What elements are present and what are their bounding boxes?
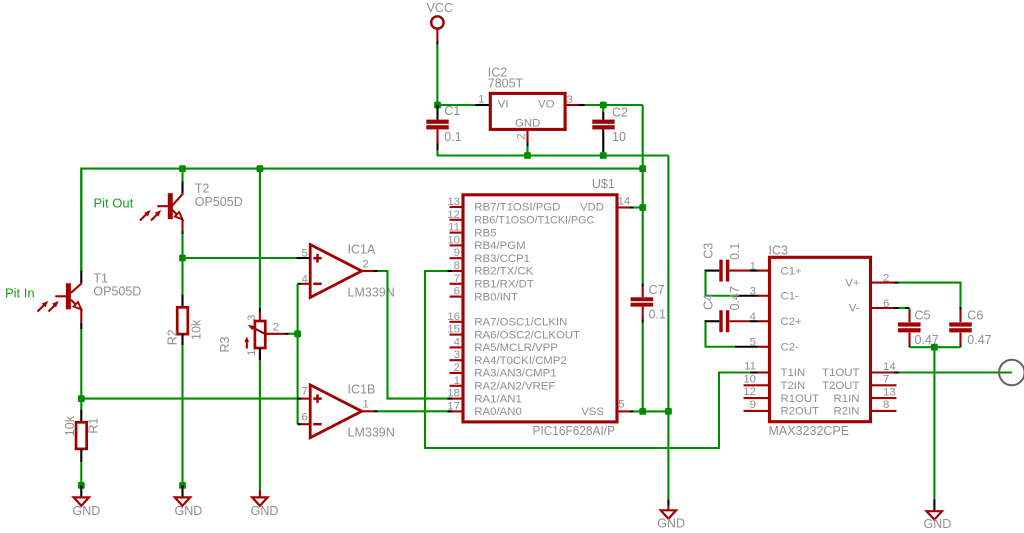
svg-text:10: 10: [447, 234, 460, 246]
U$1 pin 14 VDD stub: [617, 206, 634, 208]
label Pit In: [5, 285, 35, 300]
value LM339N of IC1A: [348, 285, 395, 299]
wire VSS pin to node: [634, 410, 643, 412]
svg-text:IC1B: IC1B: [348, 383, 376, 397]
wire IC1B output to RA0: [378, 410, 448, 412]
svg-text:0.1: 0.1: [444, 130, 461, 144]
pin number 4 of IC3: [750, 311, 756, 323]
wire C7 bottom to VSS node: [642, 323, 644, 412]
transistor T2 collector pin: [172, 181, 183, 205]
node junction R3 column on 5V rail: [257, 165, 264, 172]
node junction VDD pin 14: [639, 204, 646, 211]
svg-text:6: 6: [883, 298, 889, 310]
pin name RA1/AN1: [474, 393, 521, 405]
pin name RA7/OSC1/CLKIN: [474, 317, 567, 329]
resistor R1 bottom lead: [80, 449, 82, 462]
trimmer R3 box: [255, 321, 265, 348]
node junction T2/R2/IC1A: [179, 255, 186, 262]
svg-text:GND: GND: [924, 517, 952, 531]
svg-text:LM339N: LM339N: [348, 425, 395, 439]
pin name T2IN: [781, 380, 806, 392]
svg-text:RA0/AN0: RA0/AN0: [474, 406, 521, 418]
wire IC1A minus to R3 node: [297, 284, 299, 334]
svg-text:18: 18: [447, 388, 460, 400]
svg-text:T2IN: T2IN: [781, 380, 806, 392]
pin number 8 of IC3: [883, 399, 889, 411]
pin number 2 of IC2 rotated: [515, 133, 527, 139]
pin name RB5: [474, 227, 496, 239]
pin name C1+: [781, 265, 803, 277]
pin number 11 of U$1: [448, 222, 460, 234]
ground pin stub GND1: [80, 485, 82, 497]
wire T1 collector from 5V rail: [80, 169, 82, 271]
wire C3 left to pin 3: [706, 271, 758, 296]
svg-text:R1IN: R1IN: [834, 393, 860, 405]
svg-text:11: 11: [744, 361, 756, 373]
ground symbol GND3: [252, 497, 267, 505]
svg-text:V-: V-: [849, 303, 860, 315]
connector pad X1 circle: [999, 360, 1024, 386]
svg-text:10: 10: [743, 373, 756, 385]
svg-text:RA7/OSC1/CLKIN: RA7/OSC1/CLKIN: [474, 317, 567, 329]
wire C5-C6 GND rail: [910, 346, 961, 348]
transistor T2 base stub: [157, 205, 168, 207]
svg-text:8: 8: [454, 260, 460, 272]
IC3 pin 11 T1IN stub: [750, 371, 770, 373]
node junction 5V rail right end: [639, 165, 646, 172]
transistor T1 emitter pin: [80, 310, 82, 329]
svg-text:GND: GND: [73, 504, 101, 518]
pin number 18 of U$1: [447, 388, 460, 400]
wire VO to C2 node: [585, 104, 604, 106]
capacitor C5 bottom lead: [908, 333, 910, 348]
svg-text:R2IN: R2IN: [834, 406, 860, 418]
capacitor C4 right lead: [729, 320, 750, 322]
svg-text:4: 4: [750, 311, 756, 323]
label C1: [444, 104, 460, 118]
svg-text:17: 17: [447, 400, 460, 412]
pin number 5 of IC3: [750, 337, 756, 349]
pin name RB0/INT: [474, 291, 518, 303]
pin number 10 of IC3: [743, 373, 756, 385]
node junction T1/R1/rail: [78, 395, 85, 402]
svg-text:C6: C6: [967, 308, 983, 322]
wire R3 bottom to GND: [259, 360, 261, 497]
pin name VO: [538, 99, 555, 111]
svg-text:RA4/T0CKI/CMP2: RA4/T0CKI/CMP2: [474, 355, 566, 367]
light arrow 2 into T1: [49, 301, 59, 312]
U$1 pin 4 RA5/MCLR/VPP stub: [450, 346, 464, 348]
svg-text:C1+: C1+: [781, 265, 803, 277]
pin name R2IN: [834, 406, 860, 418]
label GND 1: [73, 504, 101, 518]
capacitor C7 plates: [631, 297, 654, 306]
trimmer R3 bottom lead: [259, 348, 261, 360]
wire 5V rail from VO column down: [642, 105, 644, 169]
label R3 rotated: [218, 336, 232, 352]
label T1: [93, 271, 108, 285]
label C6: [967, 308, 983, 322]
svg-text:T2: T2: [195, 181, 210, 195]
resistor R1 top lead: [80, 399, 82, 423]
pin name RB2/TX/CK: [474, 266, 533, 278]
value OP505D of T1: [93, 285, 141, 299]
svg-text:RB2/TX/CK: RB2/TX/CK: [474, 266, 533, 278]
svg-text:1: 1: [750, 260, 756, 272]
IC3 pin 8 R2IN stub: [871, 410, 897, 412]
U$1 pin 18 RA1/AN1 stub: [447, 398, 463, 400]
wire 5V rail y=168.6: [81, 169, 642, 271]
node VO junction at C2 top: [600, 102, 607, 109]
svg-text:VO: VO: [538, 99, 555, 111]
capacitor C6 plates: [949, 322, 972, 332]
pin name R1IN: [834, 393, 860, 405]
svg-text:12: 12: [743, 386, 756, 398]
label T2: [195, 181, 210, 195]
wire GND drop right: [933, 347, 935, 511]
svg-text:R1OUT: R1OUT: [781, 393, 820, 405]
U$1 pin 17 RA0/AN0 stub: [447, 410, 463, 412]
pin number 13 of IC3: [883, 386, 896, 398]
U$1 pin 12 RB6/T1OSO/T1CKI/PGC stub: [450, 219, 464, 221]
label IC1B: [348, 383, 376, 397]
IC3 pin 10 T2IN stub: [744, 384, 770, 386]
svg-text:12: 12: [447, 209, 460, 221]
svg-text:RA6/OSC2/CLKOUT: RA6/OSC2/CLKOUT: [474, 329, 580, 341]
label U$1: [592, 177, 615, 191]
ground symbol right GND: [927, 511, 942, 519]
svg-text:OP505D: OP505D: [195, 195, 243, 209]
wire VSS node to GND drop: [643, 410, 669, 412]
pin name GND of IC2: [515, 117, 540, 129]
pin number 6 of IC1B: [301, 411, 307, 423]
svg-text:RB7/T1OSI/PGD: RB7/T1OSI/PGD: [474, 202, 560, 214]
value 10k of R2 rotated: [189, 319, 203, 340]
wire R2 bottom to GND: [181, 345, 183, 485]
trimmer R3 adjust arrow: [244, 337, 249, 349]
svg-text:16: 16: [447, 311, 460, 323]
svg-text:R3: R3: [218, 336, 232, 352]
svg-text:10: 10: [612, 130, 626, 144]
svg-text:9: 9: [454, 247, 460, 259]
pin number 1 of IC3: [750, 260, 756, 272]
ground symbol center GND: [661, 510, 676, 518]
pin name C2+: [781, 316, 803, 328]
U$1 pin 1 RA2/AN2/VREF stub: [450, 385, 464, 387]
wire T2 node to IC1A plus input: [183, 257, 298, 259]
svg-text:14: 14: [618, 196, 631, 208]
pin name V+: [845, 277, 860, 289]
pin number 14 of U$1: [618, 196, 631, 208]
IC3 pin 4 C2+ stub: [750, 320, 770, 322]
wire 5V rail to R3 top: [259, 169, 261, 321]
transistor T2 emitter: [172, 210, 182, 220]
pin name RB3/CCP1: [474, 253, 530, 265]
wire GND drop center: [667, 411, 669, 510]
pin number 3 of IC3: [750, 286, 756, 298]
wire T1OUT to connector: [899, 371, 1012, 373]
ground symbol GND2: [175, 497, 190, 505]
wire T1 emitter to left rail node: [80, 329, 82, 399]
svg-text:10k: 10k: [63, 415, 77, 436]
op-amp IC1B pin 7 stub: [297, 398, 310, 400]
pin number 6 of U$1: [454, 286, 460, 298]
svg-text:14: 14: [883, 361, 896, 373]
svg-text:C2: C2: [612, 105, 628, 119]
pin number 3 of R3 rotated: [246, 315, 258, 321]
pin number 11 of IC3: [744, 361, 756, 373]
node VCC junction at C1 top: [434, 102, 441, 109]
op-amp IC1B minus sign: [313, 423, 321, 426]
pin name RB7/T1OSI/PGD: [474, 202, 560, 214]
svg-text:GND: GND: [657, 516, 685, 530]
label GND 3: [251, 504, 279, 518]
value 0.1 of C7: [649, 308, 666, 322]
svg-text:6: 6: [301, 411, 307, 423]
svg-text:7: 7: [454, 273, 460, 285]
svg-text:4: 4: [454, 336, 460, 348]
svg-text:RB3/CCP1: RB3/CCP1: [474, 253, 530, 265]
svg-text:MAX3232CPE: MAX3232CPE: [769, 424, 850, 438]
IC3 pin 13 R1IN stub: [871, 397, 897, 399]
op-amp IC1B pin 6 stub: [298, 423, 311, 425]
pin number 4 of U$1: [454, 336, 460, 348]
wire C1 to GND rail corner: [438, 150, 528, 156]
label Pit Out: [94, 196, 134, 211]
capacitor C4 plates: [719, 310, 729, 332]
svg-text:7: 7: [301, 385, 307, 397]
power symbol VCC: [427, 1, 453, 45]
light arrow 2 into T2: [151, 210, 161, 221]
wire GND rail corner down to VSS node: [667, 156, 669, 412]
IC3 pin 2 V+ stub: [871, 282, 899, 284]
capacitor C2 plates: [592, 120, 614, 130]
pin number 6 of IC3: [883, 298, 889, 310]
node junction above GND2: [179, 482, 186, 489]
value LM339N of IC1B: [348, 425, 395, 439]
value 7805T: [488, 77, 524, 91]
svg-text:C5: C5: [915, 308, 931, 322]
node junction above GND1: [78, 482, 85, 489]
wire VCC to IC2 VI: [438, 104, 476, 106]
value 10 of C2: [612, 130, 626, 144]
pin number 9 of U$1: [454, 247, 460, 259]
pin name VSS: [581, 406, 604, 418]
svg-text:Pit Out: Pit Out: [94, 196, 134, 211]
U$1 pin 10 RB4/PGM stub: [450, 244, 464, 246]
pin name RA4/T0CKI/CMP2: [474, 355, 566, 367]
pin name RB1/RX/DT: [474, 279, 534, 291]
svg-text:PIC16F628AI/P: PIC16F628AI/P: [533, 424, 616, 438]
op-amp IC1A minus sign: [313, 283, 321, 286]
IC2 pin 1 VI stub: [476, 104, 491, 106]
svg-text:VSS: VSS: [581, 406, 604, 418]
pin number 2 of U$1: [454, 362, 460, 374]
wire left signal rail y=398.6: [81, 398, 297, 400]
pin number 9 of IC3: [750, 399, 756, 411]
resistor R1 box: [76, 422, 87, 449]
label GND right: [924, 517, 952, 531]
svg-text:11: 11: [448, 222, 460, 234]
capacitor C3 right lead: [729, 270, 750, 272]
node junction VSS/C7: [639, 408, 646, 415]
svg-text:T1: T1: [93, 271, 108, 285]
pin name RA0/AN0: [474, 406, 521, 418]
svg-text:GND: GND: [515, 117, 540, 129]
U$1 pin 15 RA6/OSC2/CLKOUT stub: [450, 334, 464, 336]
op-amp IC1B plus sign: [313, 394, 321, 402]
label C5: [915, 308, 931, 322]
transistor T1 collector pin: [71, 270, 81, 293]
wire VDD node to C7: [642, 208, 644, 298]
pin number 1 of IC1B output: [363, 399, 369, 411]
svg-text:13: 13: [883, 386, 896, 398]
svg-text:VCC: VCC: [427, 1, 453, 15]
op-amp IC1A pin 5 stub: [297, 257, 311, 259]
wire T2 emitter to node: [181, 234, 183, 258]
svg-text:C1: C1: [444, 104, 460, 118]
svg-text:6: 6: [454, 286, 460, 298]
IC3 pin 7 T2OUT stub: [871, 384, 897, 386]
svg-text:C3: C3: [702, 243, 716, 259]
svg-text:0.47: 0.47: [967, 333, 991, 347]
wire R3 wiper to node: [289, 333, 298, 335]
U$1 pin 13 RB7/T1OSI/PGD stub: [450, 206, 464, 208]
svg-text:C1-: C1-: [781, 291, 800, 303]
U$1 pin 11 RB5 stub: [450, 232, 464, 234]
op-amp IC1A output pin: [362, 270, 378, 272]
wire T2 collector from 5V rail: [181, 169, 183, 182]
wire RB2/TX to MAX rail: [425, 271, 750, 448]
svg-text:RB4/PGM: RB4/PGM: [474, 240, 525, 252]
op-amp IC1B output pin: [362, 410, 378, 412]
IC3 pin 3 C1- stub: [758, 295, 770, 297]
svg-text:RB0/INT: RB0/INT: [474, 291, 518, 303]
wire node to R2 top: [181, 258, 183, 307]
svg-text:R1: R1: [87, 418, 101, 434]
value PIC16F628AI/P: [533, 424, 616, 438]
pin name R2OUT: [781, 406, 820, 418]
wire C4 left to pin 5: [706, 322, 758, 347]
pin number 2 of IC1A output: [363, 259, 369, 271]
value 10k of R1 rotated: [63, 415, 77, 436]
resistor R2 bottom lead: [181, 334, 183, 345]
svg-text:RB5: RB5: [474, 227, 496, 239]
transistor T2 base bar: [168, 193, 173, 219]
svg-text:RA3/AN3/CMP1: RA3/AN3/CMP1: [474, 368, 556, 380]
pin name RA2/AN2/VREF: [474, 381, 555, 393]
capacitor C6 bottom lead: [959, 333, 961, 348]
svg-text:IC3: IC3: [769, 244, 789, 258]
pin number 12 of U$1: [447, 209, 460, 221]
svg-text:T1IN: T1IN: [781, 367, 806, 379]
value 0.47 of C5: [915, 333, 939, 347]
svg-text:RA2/AN2/VREF: RA2/AN2/VREF: [474, 381, 555, 393]
svg-text:V+: V+: [845, 277, 860, 289]
svg-text:C7: C7: [649, 283, 665, 297]
svg-text:8: 8: [883, 399, 889, 411]
svg-text:C4: C4: [702, 294, 716, 310]
transistor T1 base bar: [66, 283, 71, 309]
svg-text:GND: GND: [251, 504, 279, 518]
capacitor C3 plates: [719, 260, 729, 282]
svg-text:10k: 10k: [189, 319, 203, 340]
IC2 pin 2 GND stub: [526, 129, 528, 146]
op-amp IC1A plus sign: [313, 254, 321, 262]
capacitor C2 top lead: [602, 105, 604, 120]
pin name V-: [849, 303, 860, 315]
label IC2: [488, 65, 508, 79]
resistor R2 box: [177, 307, 188, 334]
label C2: [612, 105, 628, 119]
svg-text:IC1A: IC1A: [348, 243, 376, 257]
svg-text:1: 1: [363, 399, 369, 411]
wire V+ to C6 top: [899, 283, 961, 322]
svg-text:R2OUT: R2OUT: [781, 406, 820, 418]
ground pin stub GND2: [181, 485, 183, 497]
op-amp IC1A pin 4 stub: [298, 283, 311, 285]
pin number 15 of U$1: [447, 324, 460, 336]
pin name R1OUT: [781, 393, 820, 405]
wire VO node to corner x=642.7: [603, 104, 642, 106]
svg-text:U$1: U$1: [592, 177, 615, 191]
svg-text:C2-: C2-: [781, 342, 800, 354]
label R2 rotated: [166, 329, 180, 345]
pin number 2 of R3: [273, 321, 279, 333]
svg-text:1: 1: [454, 375, 460, 387]
pin number 16 of U$1: [447, 311, 460, 323]
pin name RA5/MCLR/VPP: [474, 342, 558, 354]
svg-text:0.47: 0.47: [728, 286, 742, 310]
op-amp IC1B triangle: [310, 385, 362, 438]
svg-text:2: 2: [363, 259, 369, 271]
node junction GND rail right: [931, 344, 938, 351]
node junction R3/IC1A-minus/IC1B: [294, 330, 301, 337]
value 0.47 of C6: [967, 333, 991, 347]
microcontroller U$1 box: [463, 195, 617, 422]
pin name RA6/OSC2/CLKOUT: [474, 329, 580, 341]
svg-text:RA5/MCLR/VPP: RA5/MCLR/VPP: [474, 342, 558, 354]
svg-text:1: 1: [478, 94, 484, 106]
pin number 1 of U$1: [454, 375, 460, 387]
wire R1 bottom to GND: [80, 462, 82, 485]
IC3 pin 12 R1OUT stub: [744, 397, 770, 399]
pin number 8 of U$1: [454, 260, 460, 272]
node junction T2 collector on 5V rail: [179, 165, 186, 172]
U$1 pin 16 RA7/OSC1/CLKIN stub: [450, 321, 464, 323]
label GND 2: [175, 504, 203, 518]
value MAX3232CPE: [769, 424, 850, 438]
wire R3 node down to IC1B: [297, 334, 299, 424]
pin number 5 of IC1A: [301, 247, 307, 259]
svg-text:T1OUT: T1OUT: [822, 367, 859, 379]
wire VDD column: [642, 169, 644, 208]
svg-text:15: 15: [447, 324, 460, 336]
svg-text:2: 2: [883, 272, 889, 284]
IC3 pin 5 C2- stub: [758, 346, 770, 348]
capacitor C2 bottom lead: [602, 130, 604, 153]
U$1 pin 8 RB2/TX/CK stub: [447, 270, 463, 272]
pin name T2OUT: [822, 380, 859, 392]
svg-text:R2: R2: [166, 329, 180, 345]
IC2 pin 3 VO stub: [565, 104, 584, 106]
pin name T1OUT: [822, 367, 859, 379]
node junction IC2 GND on rail: [524, 152, 531, 159]
light arrow 1 into T1: [38, 301, 49, 312]
svg-text:T2OUT: T2OUT: [822, 380, 859, 392]
svg-text:3: 3: [454, 349, 460, 361]
transistor T1 emitter: [71, 300, 81, 310]
